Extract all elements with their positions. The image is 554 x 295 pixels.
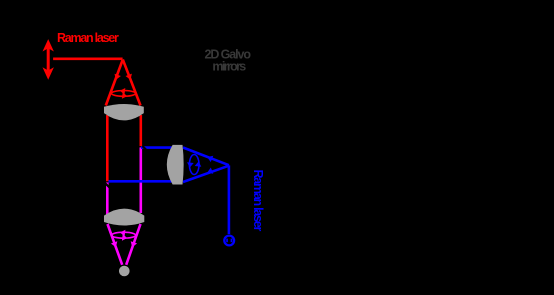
rotation arrowhead upper arc (magenta) [120, 230, 125, 237]
arrowhead on right red cone edge [126, 74, 132, 80]
blue laser source symbol (circle) [224, 236, 234, 246]
red collimated beam (vertical) left [106, 115, 109, 181]
svg-text:mirrors: mirrors [212, 59, 246, 73]
magenta focusing cone below objective [108, 224, 123, 265]
arrowhead on top blue edge [207, 156, 213, 162]
blue beam: bottom horizontal line [109, 180, 174, 183]
galvo mirror (hidden black) [222, 158, 236, 172]
svg-text:Raman laser: Raman laser [251, 170, 265, 232]
beam rotation ellipse (red) [112, 91, 136, 97]
lens L3 (gray, vertical collimating lens) [167, 145, 184, 185]
rotation arrowhead left arc (blue) [187, 162, 194, 167]
dichroic mirror edge crossing left magenta line (black) [104, 182, 111, 189]
magenta combined beam right line [140, 147, 143, 213]
blue link from cone apex to vertical drop [228, 165, 231, 234]
beam rotation ellipse (blue) [189, 155, 199, 175]
sample focus dot (gray) [119, 266, 130, 277]
arrowhead on left red cone edge [115, 74, 121, 80]
lens L2 (gray, objective) [104, 209, 144, 226]
blue beam: top horizontal line [141, 146, 173, 149]
arrowhead on right magenta edge [131, 241, 137, 247]
svg-text:Raman laser: Raman laser [57, 31, 119, 45]
red collimated beam (vertical) right [140, 115, 143, 146]
lens L1 (gray, collimating) [104, 104, 144, 120]
rotation arrowhead right arc (blue) [195, 161, 202, 166]
red beam: horizontal segment [53, 57, 123, 60]
rotation arrowhead lower arc (magenta) [122, 234, 127, 241]
dichroic mirror edge crossing top blue line (black) [143, 146, 149, 152]
mirror M1 (hidden black) [114, 52, 132, 66]
polarization double-headed arrow (red) [44, 40, 53, 78]
arrowhead on left magenta edge [111, 241, 117, 247]
magenta combined beam left line [106, 182, 109, 216]
red focusing cone from mirror to lens L1 [106, 60, 123, 106]
arrowhead on bottom blue edge [207, 168, 213, 174]
blue diverging cone from galvo to lens L3 [183, 148, 229, 166]
rotation arrowhead upper arc (red) [120, 88, 125, 95]
beam rotation ellipse (magenta) [112, 232, 136, 238]
rotation arrowhead lower arc (red) [122, 92, 127, 99]
